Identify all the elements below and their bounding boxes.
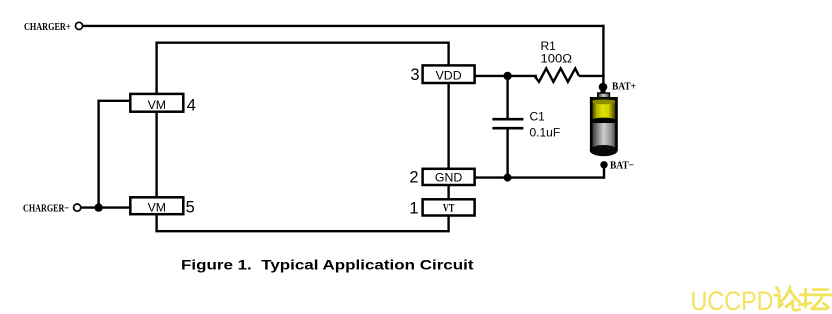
battery bottom cap	[590, 145, 618, 156]
svg-text:0.1uF: 0.1uF	[530, 126, 561, 140]
wire battery top vertical	[602, 25, 604, 88]
battery top band	[590, 97, 617, 100]
svg-text:CHARGER−: CHARGER−	[23, 203, 69, 215]
svg-text:1: 1	[409, 200, 418, 218]
svg-text:4: 4	[187, 96, 196, 114]
pin 3 box VDD	[423, 65, 475, 83]
battery nub	[598, 93, 610, 99]
wire capacitor top	[506, 76, 508, 119]
svg-text:VT: VT	[443, 202, 455, 214]
svg-text:2: 2	[409, 169, 418, 187]
pin 5 box VM	[130, 197, 183, 214]
battery BT1	[590, 88, 618, 156]
svg-text:VM: VM	[148, 98, 166, 112]
pin 4 box VM	[130, 94, 183, 112]
wire GND to BAT-	[475, 176, 604, 178]
wire VDD to resistor	[475, 75, 537, 77]
junction BAT-	[600, 161, 607, 168]
svg-text:Figure 1. Typical Application: Figure 1. Typical Application Circuit	[181, 257, 474, 273]
pin 2 box GND	[423, 169, 475, 185]
wire CHARGER- to VM pin5	[81, 206, 130, 208]
svg-text:100Ω: 100Ω	[541, 52, 573, 66]
watermark CJK lun	[775, 287, 800, 310]
IC U1 outline	[157, 42, 449, 233]
svg-text:BAT−: BAT−	[610, 159, 634, 171]
battery body gray	[590, 123, 617, 151]
battery body yellow	[590, 97, 617, 123]
junction CHARGER- node	[94, 203, 102, 211]
junction GND node	[504, 174, 512, 182]
battery side outline	[591, 97, 616, 151]
svg-text:VDD: VDD	[436, 68, 462, 82]
wire BAT- vertical	[603, 165, 605, 179]
svg-text:C1: C1	[530, 110, 546, 124]
watermark CJK tan	[799, 289, 831, 309]
terminal CHARGER-	[74, 204, 81, 211]
svg-text:VM: VM	[148, 200, 166, 214]
capacitor C1	[492, 119, 523, 128]
svg-text:5: 5	[186, 199, 195, 217]
wire VM pin4 to left rail	[99, 100, 131, 102]
svg-text:UCCPD: UCCPD	[691, 286, 774, 314]
terminal CHARGER+	[75, 22, 82, 29]
svg-text:GND: GND	[435, 171, 462, 185]
svg-text:CHARGER+: CHARGER+	[24, 21, 71, 33]
svg-text:BAT+: BAT+	[612, 80, 636, 92]
resistor R1	[535, 68, 580, 81]
wire CHARGER+ to battery top	[83, 25, 604, 27]
wire left rail vertical	[97, 100, 99, 208]
svg-text:3: 3	[410, 66, 419, 84]
wire capacitor bottom	[506, 128, 508, 177]
battery stem	[601, 88, 606, 95]
battery divider	[590, 118, 617, 125]
wire resistor to battery rail	[579, 75, 605, 77]
junction VDD node	[503, 72, 511, 80]
junction BAT+	[599, 83, 608, 92]
pin 1 box VT	[423, 199, 475, 215]
